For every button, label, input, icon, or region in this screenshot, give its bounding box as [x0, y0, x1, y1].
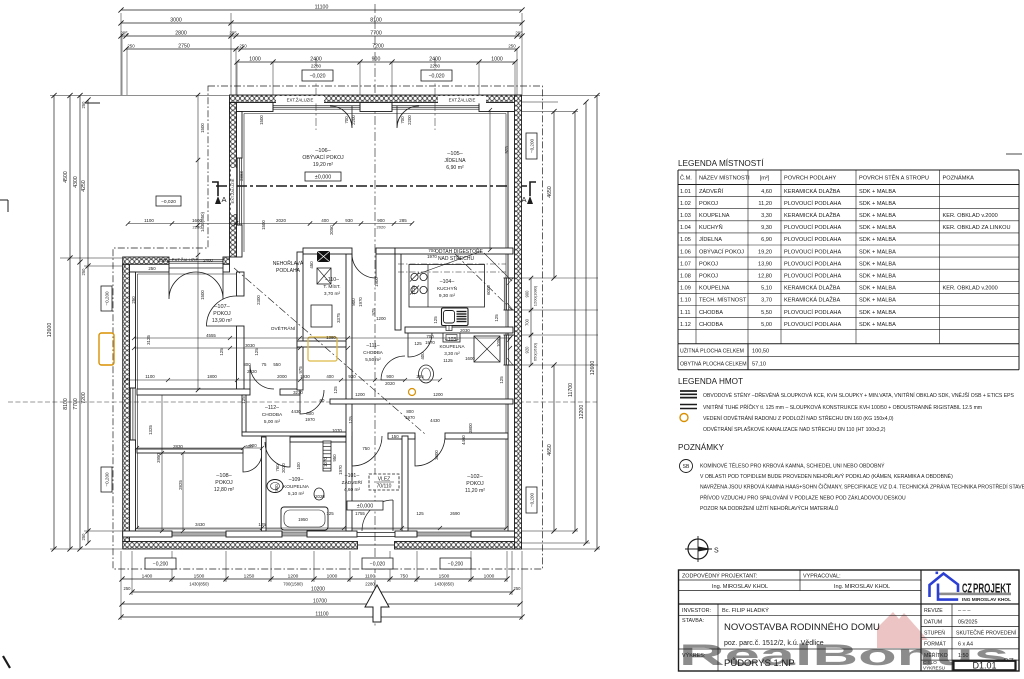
svg-text:3950: 3950 [156, 453, 161, 463]
svg-text:PLOVOUCÍ PODLAHA: PLOVOUCÍ PODLAHA [784, 200, 841, 207]
svg-text:11,20 m²: 11,20 m² [465, 488, 485, 494]
svg-text:1.04: 1.04 [680, 225, 691, 231]
svg-text:2825: 2825 [178, 480, 183, 490]
svg-text:STAVBA:: STAVBA: [682, 618, 704, 624]
svg-text:KERAMICKÁ DLAŽBA: KERAMICKÁ DLAŽBA [784, 296, 841, 304]
svg-text:STUPEŇ: STUPEŇ [924, 630, 945, 637]
svg-text:3430: 3430 [195, 522, 205, 527]
svg-text:760: 760 [275, 464, 280, 472]
svg-text:800: 800 [306, 411, 314, 416]
svg-text:1430(850): 1430(850) [434, 582, 454, 587]
svg-text:2800: 2800 [175, 31, 187, 37]
svg-text:NEHOŘLAVÁ: NEHOŘLAVÁ [273, 259, 304, 267]
svg-text:12,80: 12,80 [758, 274, 772, 280]
svg-text:1:50: 1:50 [958, 653, 969, 659]
svg-text:1000: 1000 [327, 574, 338, 580]
svg-text:2200: 2200 [351, 115, 356, 125]
svg-text:EXT.ŽALUZIE: EXT.ŽALUZIE [449, 98, 476, 103]
svg-text:1970: 1970 [425, 340, 435, 345]
svg-text:DATUM: DATUM [924, 619, 942, 625]
svg-text:9,30: 9,30 [761, 225, 772, 231]
svg-text:1970: 1970 [405, 415, 415, 420]
svg-text:1125: 1125 [443, 358, 453, 363]
svg-text:2000: 2000 [277, 374, 287, 379]
svg-text:3,70 m²: 3,70 m² [324, 291, 341, 297]
svg-text:5,10 m²: 5,10 m² [288, 491, 305, 497]
svg-text:A: A [521, 195, 526, 204]
svg-text:POVRCH PODLAHY: POVRCH PODLAHY [784, 176, 836, 182]
svg-text:2280: 2280 [311, 64, 322, 69]
svg-text:2363: 2363 [239, 171, 244, 181]
svg-text:2020: 2020 [315, 494, 325, 499]
svg-text:SDK + MALBA: SDK + MALBA [859, 310, 896, 316]
svg-text:975: 975 [371, 308, 376, 316]
svg-text:EXT.ŽALUZIE: EXT.ŽALUZIE [172, 258, 199, 263]
svg-text:SB: SB [683, 464, 690, 470]
svg-text:4250: 4250 [81, 180, 87, 192]
svg-text:NAVRŽENA JSOU KRBOVÁ KAMNA HAA: NAVRŽENA JSOU KRBOVÁ KAMNA HAAS+SOHN ČIČ… [700, 483, 1024, 491]
svg-text:REVIZE: REVIZE [924, 608, 943, 614]
svg-text:4555: 4555 [206, 333, 216, 338]
svg-text:KOMÍNOVÉ TĚLESO PRO KRBOVÁ KAM: KOMÍNOVÉ TĚLESO PRO KRBOVÁ KAMNA, SCHIED… [700, 462, 885, 470]
svg-text:3125: 3125 [146, 335, 151, 345]
svg-text:EXT.ŽALUZIE: EXT.ŽALUZIE [230, 178, 235, 203]
svg-text:6 x A4: 6 x A4 [958, 642, 973, 648]
svg-text:12600: 12600 [47, 323, 53, 338]
svg-text:650(1630): 650(1630) [533, 342, 538, 361]
svg-text:250: 250 [81, 533, 86, 541]
svg-text:250: 250 [81, 101, 86, 109]
svg-text:13,90 m²: 13,90 m² [212, 318, 233, 324]
svg-text:EXT.ŽALUZIE: EXT.ŽALUZIE [287, 98, 314, 103]
svg-text:3230: 3230 [293, 390, 303, 395]
svg-text:1755: 1755 [355, 511, 365, 516]
svg-text:2280: 2280 [365, 582, 375, 587]
svg-text:CHODBA: CHODBA [363, 350, 384, 355]
svg-text:PROJEKT: PROJEKT [973, 581, 1011, 596]
svg-text:1380: 1380 [326, 335, 336, 340]
svg-text:KUCHYŇ: KUCHYŇ [699, 224, 723, 231]
svg-text:800: 800 [351, 298, 356, 306]
svg-text:PŘÍVOD VZDUCHU PRO SPALOVÁNÍ V: PŘÍVOD VZDUCHU PRO SPALOVÁNÍ V PODLAZE N… [700, 493, 906, 501]
svg-text:NOVOSTAVBA RODINNÉHO DOMU: NOVOSTAVBA RODINNÉHO DOMU [724, 622, 880, 633]
svg-text:60: 60 [320, 398, 325, 403]
svg-text:VLEZ: VLEZ [378, 477, 391, 483]
svg-text:13,90: 13,90 [758, 261, 772, 267]
svg-text:A: A [221, 195, 226, 204]
svg-text:2400: 2400 [203, 258, 213, 263]
svg-text:±0,000: ±0,000 [357, 503, 373, 509]
svg-text:1.06: 1.06 [680, 249, 691, 255]
svg-text:SDK + MALBA: SDK + MALBA [859, 213, 896, 219]
svg-text:1600: 1600 [192, 218, 203, 223]
svg-text:400: 400 [326, 374, 334, 379]
svg-text:Ing. MIROSLAV KHOL: Ing. MIROSLAV KHOL [712, 584, 768, 590]
svg-text:VYPRACOVAL:: VYPRACOVAL: [803, 574, 841, 580]
svg-text:1200: 1200 [288, 574, 299, 580]
svg-text:POZNÁMKA: POZNÁMKA [943, 175, 975, 182]
svg-text:PŮDORYS 1.NP: PŮDORYS 1.NP [724, 657, 795, 669]
svg-text:1500: 1500 [439, 574, 450, 580]
svg-text:1430(850): 1430(850) [189, 582, 209, 587]
svg-text:12600: 12600 [590, 361, 596, 376]
svg-text:POKOJ: POKOJ [215, 480, 233, 486]
svg-text:POKOJ: POKOJ [699, 261, 718, 267]
svg-text:−0,020: −0,020 [161, 199, 176, 205]
svg-text:4300: 4300 [73, 176, 79, 188]
svg-text:PLOVOUCÍ PODLAHA: PLOVOUCÍ PODLAHA [784, 224, 841, 231]
svg-text:5,00: 5,00 [761, 322, 772, 328]
svg-text:1.05: 1.05 [680, 237, 691, 243]
svg-text:−0,200: −0,200 [529, 138, 534, 153]
svg-text:PLOVOUCÍ PODLAHA: PLOVOUCÍ PODLAHA [784, 236, 841, 243]
svg-text:5,50: 5,50 [761, 310, 772, 316]
svg-text:1100: 1100 [144, 218, 154, 223]
svg-text:ODVĚTRÁNÍ SPLAŠKOVÉ KANALIZACE: ODVĚTRÁNÍ SPLAŠKOVÉ KANALIZACE NAD STŘEC… [703, 425, 886, 433]
svg-text:1.01: 1.01 [680, 189, 691, 195]
svg-text:4430: 4430 [291, 409, 301, 414]
svg-text:250: 250 [127, 44, 135, 49]
svg-text:1500: 1500 [259, 115, 264, 125]
svg-text:SDK + MALBA: SDK + MALBA [859, 201, 896, 207]
svg-text:700(1580): 700(1580) [283, 582, 303, 587]
svg-text:–105–: –105– [447, 151, 463, 157]
svg-text:KERAMICKÁ DLAŽBA: KERAMICKÁ DLAŽBA [784, 211, 841, 219]
svg-text:3000: 3000 [170, 18, 182, 24]
svg-text:7700: 7700 [73, 398, 79, 410]
svg-text:4500: 4500 [63, 171, 69, 183]
svg-text:VÝKRESU: VÝKRESU [923, 665, 945, 671]
svg-text:125: 125 [494, 314, 499, 322]
svg-text:1070: 1070 [332, 428, 342, 433]
svg-text:POVRCH STĚN A STROPU: POVRCH STĚN A STROPU [859, 174, 929, 182]
svg-text:3800: 3800 [468, 423, 473, 433]
svg-text:2030: 2030 [460, 328, 470, 333]
svg-text:1.10: 1.10 [680, 298, 691, 304]
svg-text:2690: 2690 [450, 511, 460, 516]
svg-text:6,90 m²: 6,90 m² [446, 165, 464, 171]
svg-text:1900: 1900 [374, 277, 379, 287]
svg-text:1100: 1100 [145, 374, 155, 379]
svg-text:VNITŘNÍ TUHÉ PŘÍČKY tl. 125 mm: VNITŘNÍ TUHÉ PŘÍČKY tl. 125 mm – SLOUPKO… [703, 403, 982, 411]
svg-text:205: 205 [229, 31, 237, 36]
svg-text:JÍDELNA: JÍDELNA [444, 157, 466, 164]
svg-text:1950: 1950 [298, 517, 308, 522]
svg-text:PLOVOUCÍ PODLAHA: PLOVOUCÍ PODLAHA [784, 273, 841, 280]
svg-text:Č.M.: Č.M. [680, 175, 692, 182]
svg-text:–106–: –106– [315, 148, 331, 154]
svg-text:SDK + MALBA: SDK + MALBA [859, 237, 896, 243]
svg-text:11700: 11700 [568, 383, 574, 397]
svg-text:KOUPELNA: KOUPELNA [699, 213, 730, 219]
svg-text:−0,200: −0,200 [104, 472, 109, 487]
svg-text:Ing. MIROSLAV KHOL: Ing. MIROSLAV KHOL [834, 584, 890, 590]
svg-text:SDK + MALBA: SDK + MALBA [859, 225, 896, 231]
svg-text:KERAMICKÁ DLAŽBA: KERAMICKÁ DLAŽBA [784, 284, 841, 292]
svg-text:75: 75 [262, 362, 267, 367]
svg-text:400: 400 [321, 218, 329, 223]
svg-text:KOUPELNA: KOUPELNA [699, 286, 730, 292]
svg-text:2300: 2300 [256, 295, 261, 305]
svg-text:250: 250 [81, 268, 86, 276]
svg-text:POZOR NA DODRŽENÍ UŽITÍ NEHOŘL: POZOR NA DODRŽENÍ UŽITÍ NEHOŘLAVÝCH MATE… [700, 504, 839, 512]
svg-text:125: 125 [333, 386, 338, 394]
svg-text:700: 700 [428, 248, 436, 253]
svg-text:125: 125 [499, 376, 504, 384]
svg-text:450: 450 [309, 261, 314, 269]
svg-text:−0,200: −0,200 [448, 561, 464, 567]
svg-text:750: 750 [362, 446, 370, 451]
svg-text:2050: 2050 [329, 225, 334, 235]
svg-text:285: 285 [416, 374, 424, 379]
svg-text:JÍDELNA: JÍDELNA [699, 236, 722, 243]
svg-text:VÝKRES:: VÝKRES: [682, 652, 705, 659]
svg-text:NAD STŘECHU: NAD STŘECHU [438, 254, 475, 262]
svg-text:SDK + MALBA: SDK + MALBA [859, 261, 896, 267]
svg-text:750: 750 [400, 574, 408, 580]
svg-text:POZNÁMKY: POZNÁMKY [678, 442, 724, 452]
svg-text:FORMÁT: FORMÁT [924, 641, 947, 648]
svg-text:LEGENDA MÍSTNOSTÍ: LEGENDA MÍSTNOSTÍ [678, 158, 764, 168]
svg-text:PODLAHA: PODLAHA [276, 268, 301, 274]
svg-text:1200: 1200 [376, 316, 386, 321]
svg-text:1970: 1970 [358, 297, 363, 307]
svg-text:1200(1080): 1200(1080) [533, 285, 538, 306]
svg-text:ČÍSLO: ČÍSLO [923, 659, 937, 665]
svg-text:600: 600 [249, 443, 257, 448]
svg-text:4,60 m²: 4,60 m² [344, 487, 361, 493]
svg-text:CZ: CZ [962, 581, 972, 596]
svg-text:100: 100 [296, 462, 301, 470]
svg-text:1500: 1500 [261, 220, 266, 230]
svg-text:11100: 11100 [315, 5, 329, 11]
svg-text:OBÝVACÍ POKOJ: OBÝVACÍ POKOJ [302, 154, 344, 161]
svg-text:SDK + MALBA: SDK + MALBA [859, 286, 896, 292]
svg-text:1500: 1500 [200, 123, 205, 133]
svg-text:900: 900 [377, 218, 385, 223]
svg-text:1.03: 1.03 [680, 213, 691, 219]
svg-text:2280: 2280 [193, 225, 203, 230]
svg-text:1970: 1970 [427, 254, 437, 259]
svg-text:3800: 3800 [434, 450, 439, 460]
svg-text:SDK + MALBA: SDK + MALBA [859, 274, 896, 280]
svg-text:ODTAH DIGESTOŘE: ODTAH DIGESTOŘE [435, 247, 484, 255]
svg-text:1200: 1200 [355, 392, 365, 397]
svg-text:1200: 1200 [433, 392, 443, 397]
svg-text:PLOVOUCÍ PODLAHA: PLOVOUCÍ PODLAHA [784, 321, 841, 328]
svg-text:8100: 8100 [63, 398, 69, 410]
svg-text:LEGENDA HMOT: LEGENDA HMOT [678, 377, 743, 386]
svg-text:KOUPELNA: KOUPELNA [439, 344, 465, 349]
svg-text:1.11: 1.11 [680, 310, 690, 316]
svg-text:[m²]: [m²] [760, 176, 770, 182]
svg-text:125: 125 [258, 522, 266, 527]
svg-text:T. MÍST.: T. MÍST. [323, 283, 340, 290]
svg-text:250: 250 [131, 296, 136, 304]
svg-text:10200: 10200 [311, 587, 325, 593]
svg-text:5,50 m²: 5,50 m² [365, 357, 381, 362]
svg-text:12,80 m²: 12,80 m² [214, 487, 235, 493]
svg-text:5,10: 5,10 [761, 286, 772, 292]
svg-text:−0,200: −0,200 [529, 492, 534, 507]
svg-text:−0,200: −0,200 [153, 561, 169, 567]
svg-text:285: 285 [399, 218, 407, 223]
svg-text:930: 930 [348, 374, 356, 379]
svg-text:PLOVOUCÍ PODLAHA: PLOVOUCÍ PODLAHA [784, 248, 841, 255]
svg-text:800: 800 [406, 409, 414, 414]
svg-text:2020: 2020 [276, 218, 287, 223]
svg-text:SDK + MALBA: SDK + MALBA [859, 249, 896, 255]
svg-text:poz. parc.č. 1512/2, k.ú. Vědl: poz. parc.č. 1512/2, k.ú. Vědlice [724, 640, 824, 647]
svg-text:1000: 1000 [158, 258, 168, 263]
svg-text:05/2025: 05/2025 [958, 619, 978, 625]
svg-text:PLOVOUCÍ PODLAHA: PLOVOUCÍ PODLAHA [784, 260, 841, 267]
svg-text:900: 900 [525, 290, 530, 298]
svg-text:4,60: 4,60 [761, 189, 772, 195]
svg-text:2020: 2020 [247, 369, 257, 374]
svg-text:1500: 1500 [200, 290, 205, 300]
svg-text:– – –: – – – [958, 608, 971, 614]
svg-text:1.07: 1.07 [680, 261, 691, 267]
svg-text:PLOVOUCÍ PODLAHA: PLOVOUCÍ PODLAHA [784, 309, 841, 316]
svg-text:Bc. FILIP HLADKÝ: Bc. FILIP HLADKÝ [722, 607, 769, 614]
svg-text:KUCHYŇ: KUCHYŇ [437, 285, 458, 292]
svg-text:−0,200: −0,200 [104, 291, 109, 306]
svg-text:205: 205 [515, 31, 523, 36]
svg-text:125: 125 [416, 511, 424, 516]
svg-text:70/110: 70/110 [377, 484, 392, 490]
svg-text:6,90: 6,90 [761, 237, 772, 243]
svg-text:125: 125 [254, 348, 259, 356]
svg-text:125: 125 [414, 341, 422, 346]
svg-text:400: 400 [420, 352, 425, 360]
svg-text:KER. OBKLAD v.2000: KER. OBKLAD v.2000 [943, 213, 998, 219]
svg-text:250: 250 [148, 266, 156, 271]
svg-text:10700: 10700 [313, 599, 327, 605]
svg-text:19,20 m²: 19,20 m² [313, 162, 334, 168]
svg-text:–101–: –101– [345, 473, 360, 479]
svg-text:2020: 2020 [377, 225, 387, 230]
svg-text:MĚŘÍTKO: MĚŘÍTKO [924, 651, 948, 659]
svg-text:4650: 4650 [547, 186, 553, 198]
svg-text:975: 975 [298, 366, 303, 374]
svg-text:700: 700 [525, 318, 530, 326]
svg-text:–111–: –111– [366, 343, 379, 349]
svg-text:OBVODOVÉ STĚNY –DŘEVĚNÁ SLOUPK: OBVODOVÉ STĚNY –DŘEVĚNÁ SLOUPKOVÁ KCE, K… [703, 391, 1015, 399]
svg-text:KER. OBKLAD ZA LINKOU: KER. OBKLAD ZA LINKOU [943, 225, 1011, 231]
svg-text:VEDENÍ ODVĚTRÁNÍ RADONU Z PODL: VEDENÍ ODVĚTRÁNÍ RADONU Z PODLOŽÍ NAD ST… [703, 414, 894, 422]
svg-text:1070: 1070 [323, 457, 328, 467]
svg-text:2750: 2750 [178, 44, 190, 50]
svg-text:–102–: –102– [467, 474, 483, 480]
svg-text:7700: 7700 [370, 31, 382, 37]
svg-text:1500: 1500 [194, 574, 205, 580]
svg-text:3,30: 3,30 [761, 213, 772, 219]
svg-text:2400: 2400 [310, 57, 322, 63]
svg-text:ING MIROSLAV KHOL: ING MIROSLAV KHOL [962, 597, 1011, 602]
svg-text:6000: 6000 [486, 285, 491, 295]
svg-text:8100: 8100 [370, 18, 382, 24]
svg-text:ZODPOVĚDNÝ PROJEKTANT:: ZODPOVĚDNÝ PROJEKTANT: [682, 572, 757, 580]
svg-text:700: 700 [400, 116, 405, 124]
svg-text:V OBLASTI POD TOPIDLEM BUDE PR: V OBLASTI POD TOPIDLEM BUDE PROVEDEN NEH… [700, 472, 953, 480]
svg-text:3,30 m²: 3,30 m² [444, 351, 460, 356]
svg-text:205: 205 [120, 31, 128, 36]
svg-text:1250: 1250 [244, 574, 255, 580]
svg-text:−0,020: −0,020 [370, 561, 386, 567]
svg-text:TECH. MÍSTNOST: TECH. MÍSTNOST [699, 297, 747, 304]
svg-text:1.08: 1.08 [680, 274, 691, 280]
svg-text:D1.01: D1.01 [972, 661, 996, 671]
svg-text:S: S [714, 548, 719, 555]
svg-text:1000: 1000 [484, 574, 495, 580]
svg-text:CHODBA: CHODBA [699, 322, 723, 328]
svg-text:550: 550 [273, 362, 281, 367]
svg-text:4650: 4650 [547, 444, 553, 456]
svg-text:250: 250 [124, 586, 132, 591]
svg-text:12200: 12200 [579, 405, 585, 420]
svg-text:800: 800 [243, 362, 251, 367]
svg-text:ZÁDVEŘÍ: ZÁDVEŘÍ [699, 187, 724, 195]
svg-text:925: 925 [504, 146, 509, 154]
svg-text:UŽITNÁ PLOCHA CELKEM: UŽITNÁ PLOCHA CELKEM [680, 347, 744, 355]
svg-text:700: 700 [344, 116, 349, 124]
svg-text:SDK + MALBA: SDK + MALBA [859, 322, 896, 328]
svg-text:125: 125 [433, 316, 438, 324]
svg-text:SDK + MALBA: SDK + MALBA [859, 189, 896, 195]
svg-text:125: 125 [241, 396, 246, 404]
svg-text:1000: 1000 [491, 57, 503, 63]
svg-text:1100: 1100 [365, 574, 376, 580]
svg-text:–109–: –109– [289, 477, 304, 483]
svg-text:–110–: –110– [325, 277, 339, 283]
svg-text:–107–: –107– [214, 304, 230, 310]
svg-text:950: 950 [332, 454, 337, 462]
svg-text:±0,000: ±0,000 [315, 174, 331, 180]
svg-text:1.09: 1.09 [680, 286, 691, 292]
svg-text:5,00 m²: 5,00 m² [264, 419, 281, 425]
svg-text:125: 125 [219, 348, 224, 356]
svg-text:11,20: 11,20 [758, 201, 772, 207]
svg-text:POKOJ: POKOJ [699, 201, 718, 207]
svg-text:150: 150 [391, 434, 399, 439]
svg-text:9,30 m²: 9,30 m² [439, 293, 456, 299]
svg-text:1600: 1600 [465, 356, 475, 361]
svg-text:OBYTNÁ PLOCHA CELKEM: OBYTNÁ PLOCHA CELKEM [680, 361, 747, 368]
svg-text:1725: 1725 [411, 285, 416, 295]
svg-text:POKOJ: POKOJ [699, 274, 718, 280]
svg-text:125: 125 [348, 416, 353, 424]
svg-text:POKOJ: POKOJ [466, 481, 484, 487]
svg-text:4430: 4430 [430, 418, 440, 423]
svg-text:CHODBA: CHODBA [262, 412, 283, 418]
svg-text:SKUTEČNÉ PROVEDENÍ: SKUTEČNÉ PROVEDENÍ [956, 630, 1017, 637]
svg-text:250: 250 [514, 586, 522, 591]
svg-text:–112–: –112– [265, 405, 279, 411]
svg-text:1325: 1325 [148, 425, 153, 435]
svg-text:3375: 3375 [336, 313, 341, 323]
svg-text:4460: 4460 [461, 435, 466, 445]
svg-text:2020: 2020 [385, 381, 395, 386]
svg-text:19,20: 19,20 [758, 249, 772, 255]
svg-text:KOUPELNA: KOUPELNA [283, 484, 310, 490]
svg-text:–104–: –104– [440, 279, 455, 285]
svg-text:250: 250 [508, 44, 516, 49]
svg-text:OBÝVACÍ POKOJ: OBÝVACÍ POKOJ [699, 248, 744, 255]
svg-text:11100: 11100 [315, 612, 328, 618]
svg-text:100,50: 100,50 [752, 349, 769, 355]
svg-text:NÁZEV MÍSTNOSTI: NÁZEV MÍSTNOSTI [699, 175, 750, 182]
